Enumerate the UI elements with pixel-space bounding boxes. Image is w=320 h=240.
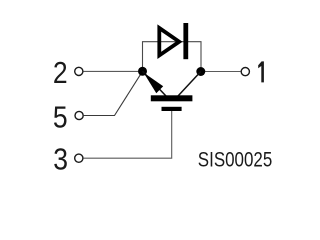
wire pin 2 to node A [83, 70, 138, 72]
svg-text:3: 3 [53, 143, 68, 177]
diode D1 anode triangle [159, 28, 179, 55]
node A junction [138, 67, 147, 76]
pin 1 label [258, 61, 264, 82]
wire node B to pin 1 [201, 71, 241, 73]
svg-text:2: 2 [53, 57, 68, 91]
node B junction [196, 67, 205, 76]
wire pin 3 to gate bar [83, 111, 171, 159]
pin 3 terminal [75, 154, 83, 162]
transistor Q1 source arrow [144, 73, 164, 94]
transistor Q1 channel bar [151, 95, 193, 101]
diode D1 cathode bar [183, 23, 188, 59]
transistor Q1 gate bar [162, 107, 182, 111]
wire node A to channel bar (source lead) [143, 71, 167, 96]
wire diode branch loop [143, 42, 202, 72]
pin 2 terminal [75, 67, 83, 75]
svg-text:5: 5 [53, 101, 68, 135]
wire pin 5 to node A [84, 71, 143, 115]
pin 5 terminal [75, 111, 83, 119]
wire node B to channel bar (drain lead) [178, 72, 201, 97]
svg-text:SIS00025: SIS00025 [198, 149, 272, 172]
pin 1 terminal [241, 68, 249, 76]
